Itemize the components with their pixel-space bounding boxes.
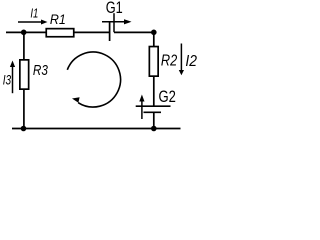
wire top horizontal left segment	[6, 31, 110, 33]
capacitor G2 upper plate	[136, 105, 171, 107]
node C junction dot bottom-left	[21, 126, 27, 132]
G2 EMF arrow	[141, 101, 143, 120]
node D junction dot bottom-right	[151, 126, 157, 132]
current arrow I3	[12, 66, 14, 93]
current arrow I2	[180, 44, 182, 71]
svg-text:G2: G2	[159, 88, 176, 106]
wire right vertical lower segment	[153, 112, 155, 128]
current arrow I1	[18, 21, 42, 23]
resistor R2	[149, 47, 158, 77]
svg-text:G1: G1	[106, 0, 123, 17]
capacitor G2 lower plate	[144, 111, 162, 113]
capacitor G1 left plate	[109, 22, 111, 41]
node A junction dot top-left	[21, 30, 27, 36]
resistor R1	[46, 29, 74, 37]
svg-text:R3: R3	[33, 63, 48, 79]
wire left vertical branch	[23, 32, 25, 128]
capacitor G1 right plate	[113, 13, 115, 32]
node B junction dot top-right	[151, 30, 157, 36]
G1 EMF arrow	[102, 21, 125, 23]
wire top horizontal right segment	[114, 31, 154, 33]
resistor R3	[20, 60, 29, 89]
svg-text:R2: R2	[161, 53, 177, 70]
svg-text:I3: I3	[3, 72, 12, 88]
wire right vertical upper segment	[153, 32, 155, 106]
svg-text:R1: R1	[50, 11, 66, 27]
wire bottom horizontal	[12, 128, 181, 130]
svg-text:I2: I2	[185, 53, 197, 70]
svg-text:I1: I1	[30, 6, 38, 20]
loop direction arrow	[67, 52, 120, 107]
